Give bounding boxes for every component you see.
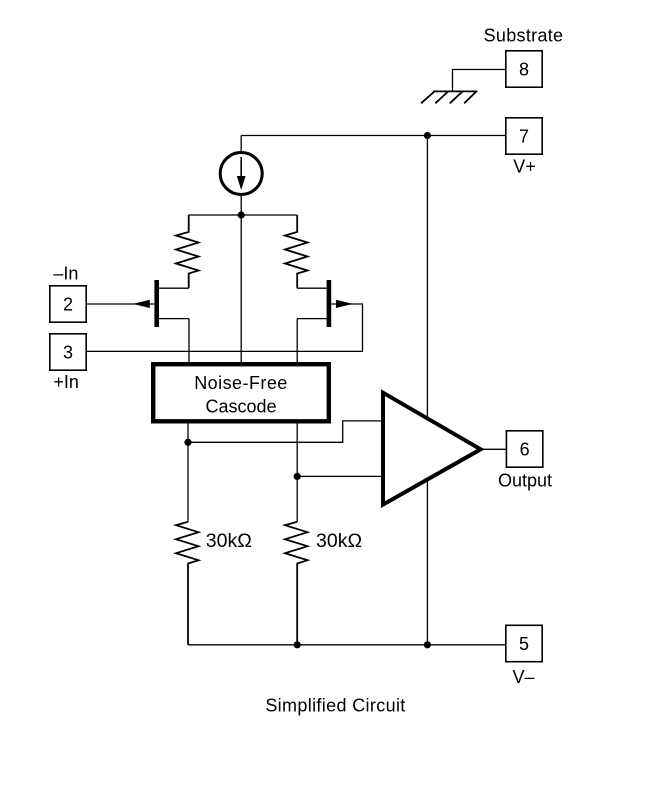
label V+ (513, 157, 536, 177)
label Cascode (205, 396, 276, 416)
label Noise-Free (194, 373, 288, 393)
wire: V+ rail horizontal (241, 135, 505, 137)
svg-text:Cascode: Cascode (205, 396, 276, 416)
label Output (498, 471, 552, 491)
svg-text:V+: V+ (513, 157, 536, 177)
svg-text:3: 3 (63, 342, 73, 362)
wire: to op-amp upper input (188, 421, 383, 442)
resistor R2 (285, 215, 308, 288)
wire: center tail to cascode (240, 215, 242, 362)
pin 3 number (63, 342, 73, 362)
wire: current source to node A (240, 196, 242, 216)
junction dot: V+ rail at pin 7 (424, 132, 431, 139)
wire: to op-amp lower input (297, 475, 383, 477)
resistor R1 (176, 215, 199, 288)
transistor Q2 (297, 280, 353, 327)
wire: pin 2 to Q1 gate (87, 303, 154, 305)
cascode block (153, 364, 329, 421)
junction dot: right output node (294, 473, 301, 480)
svg-text:–In: –In (53, 264, 78, 284)
svg-text:Substrate: Substrate (484, 26, 564, 46)
junction dot: left output node (184, 439, 191, 446)
label +In (53, 372, 79, 392)
pin 2 number (63, 295, 73, 315)
pin 6 number (520, 440, 530, 460)
pin 6 box (506, 431, 542, 467)
svg-text:30kΩ: 30kΩ (206, 530, 252, 552)
pin 7 number (519, 127, 529, 147)
pin 8 number (519, 60, 529, 80)
wire: pin 8 to ground (453, 70, 506, 92)
wire: op-amp output (481, 448, 506, 450)
wire: Q2 source to cascode (296, 319, 298, 362)
wire: V+ vertical rail (426, 136, 428, 645)
label 30kOhm left (206, 530, 252, 552)
svg-text:Simplified Circuit: Simplified Circuit (265, 696, 405, 716)
svg-text:V–: V– (512, 667, 534, 687)
label 30kOhm right (316, 530, 362, 552)
pin 3 box (50, 334, 86, 370)
wire: current source to V+ rail (240, 136, 242, 153)
pin 2 box (50, 286, 86, 322)
pin 8 box (506, 51, 542, 87)
wire: cascode left output (187, 423, 189, 521)
wire: pin 3 to Q2 gate (87, 304, 363, 351)
svg-text:2: 2 (63, 295, 73, 315)
label V- (512, 667, 534, 687)
pin 7 box (506, 118, 542, 154)
svg-text:5: 5 (519, 634, 529, 654)
transistor Q1 (133, 280, 189, 327)
label -In (53, 264, 78, 284)
resistor R4 30k (285, 522, 308, 645)
svg-text:7: 7 (519, 127, 529, 147)
svg-text:6: 6 (520, 440, 530, 460)
svg-text:+In: +In (53, 372, 79, 392)
wire: top bus (189, 214, 298, 216)
resistor R3 30k (176, 522, 199, 645)
pin 5 box (506, 625, 542, 661)
op-amp U1 (383, 393, 481, 505)
svg-text:8: 8 (519, 60, 529, 80)
ground (substrate) (421, 91, 477, 103)
wire: cascode right output (296, 423, 298, 521)
junction dot: R4 at V- rail (294, 641, 301, 648)
wire: V- rail bottom (188, 644, 505, 646)
node A junction dot (238, 211, 245, 218)
svg-text:30kΩ: 30kΩ (316, 530, 362, 552)
svg-text:Output: Output (498, 471, 552, 491)
label Substrate (484, 26, 564, 46)
pin 5 number (519, 634, 529, 654)
caption Simplified Circuit (265, 696, 405, 716)
junction dot: vertical rail at V- rail (424, 641, 431, 648)
wire: Q1 source to cascode (188, 319, 190, 362)
current source I1 (220, 153, 262, 195)
svg-text:Noise-Free: Noise-Free (194, 373, 288, 393)
